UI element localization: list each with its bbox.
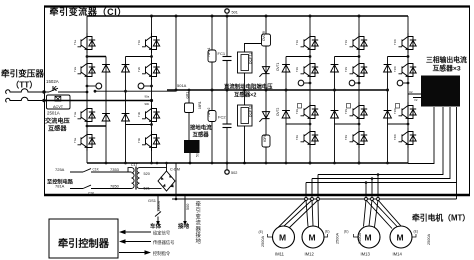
diode column DM1 upper: [285, 57, 287, 164]
svg-text:M: M: [365, 233, 372, 243]
svg-text:T1V: T1V: [344, 40, 348, 45]
svg-text:IM14: IM14: [393, 252, 403, 257]
diode DM1u: [282, 65, 290, 73]
svg-text:互感器: 互感器: [193, 131, 210, 139]
svg-text:T2a: T2a: [73, 66, 77, 72]
node: bundle terminals: [305, 198, 380, 201]
svg-text:T2W: T2W: [393, 66, 397, 72]
inverter AC terminal circle W: [397, 80, 403, 86]
svg-text:T1b: T1b: [137, 39, 141, 45]
wire: lower link DM1 to inverter leg1: [286, 123, 310, 125]
svg-text:GS1: GS1: [148, 198, 157, 203]
gate driver marks on inverter lower modules: [298, 104, 400, 109]
svg-text:T4a: T4a: [73, 137, 77, 143]
IGBT V1: [350, 33, 368, 53]
diode DM3u: [384, 65, 392, 73]
diode D1a: [102, 65, 110, 73]
svg-text:T4V: T4V: [344, 135, 348, 140]
svg-text:520: 520: [144, 172, 150, 176]
wire: inverter leg 3: [407, 16, 409, 163]
node: bottom bus junctions: [105, 162, 389, 165]
svg-text:76Re1: 76Re1: [207, 47, 211, 57]
wire: fan to motor IM13: [364, 200, 379, 227]
rectifier bridge C-DM (diamond): [158, 171, 175, 191]
svg-text:90b: 90b: [145, 102, 150, 106]
svg-text:2500A: 2500A: [336, 233, 340, 244]
diode DM1l: [282, 111, 290, 119]
diode DM2u: [331, 65, 339, 73]
wire: bundle feed from bottom bus: [175, 163, 177, 199]
IGBT T2b: [142, 60, 160, 80]
svg-text:互感器×3: 互感器×3: [433, 64, 461, 73]
IGBT T3a: [78, 105, 96, 125]
wire: top DC bus: [87, 15, 408, 17]
diode column DM3: [387, 57, 389, 164]
svg-text:FC1: FC1: [218, 51, 226, 56]
svg-text:2500A: 2500A: [261, 236, 265, 247]
ground brush E of IM12: [324, 234, 328, 237]
svg-text:DCPT2: DCPT2: [249, 106, 253, 117]
wire: link leg1 mid to diode column 1: [87, 56, 106, 58]
diode D2a: [102, 114, 110, 122]
svg-text:(E): (E): [259, 230, 264, 234]
svg-text:IM11: IM11: [275, 252, 285, 257]
svg-text:2500A: 2500A: [427, 234, 431, 245]
svg-text:781A: 781A: [55, 184, 65, 189]
resistor Re1 branch: [211, 16, 213, 90]
wire: fan to motor IM11: [278, 200, 319, 228]
svg-text:T3U: T3U: [295, 109, 299, 114]
wire: heavy transformer lower lead to right leg: [44, 100, 152, 102]
ground current transformer (filled box): [184, 140, 200, 153]
wire: fan to motor IM12: [306, 200, 319, 227]
three-phase output CT (filled box): [421, 76, 460, 107]
thyristor OVT2 + resistor branch: [265, 90, 267, 163]
svg-text:控制指令: 控制指令: [153, 250, 171, 257]
svg-text:T4W: T4W: [393, 134, 397, 140]
wire: K contactor line: [44, 88, 87, 92]
svg-text:90a: 90a: [145, 95, 150, 99]
diode DM3l: [384, 111, 392, 119]
signal arrow out of controller: [119, 252, 146, 254]
svg-text:(E): (E): [325, 230, 330, 234]
wire: bridge connections: [142, 168, 167, 189]
wire: link DM3 to inverter leg3: [388, 56, 409, 58]
svg-text:T3W: T3W: [393, 108, 397, 114]
test point 502: [226, 163, 228, 170]
motor IM13: [358, 226, 380, 248]
svg-text:牵引电机（MT）: 牵引电机（MT）: [412, 213, 470, 223]
wire: inverter leg 2: [358, 16, 360, 163]
svg-text:T1U: T1U: [295, 40, 299, 45]
AC voltage transformer ACVT box: [47, 95, 71, 109]
wire: 4QC diode column 2: [125, 57, 127, 164]
svg-text:（TT）: （TT）: [11, 80, 37, 90]
svg-text:OVT2: OVT2: [276, 107, 280, 116]
DC voltage transducer DCPT2: [238, 90, 253, 164]
svg-text:2500A: 2500A: [358, 233, 362, 244]
svg-text:T3V: T3V: [344, 109, 348, 114]
wire: DC link left vertical: [175, 16, 177, 90]
wire: lower link DM2 to inverter leg2: [335, 123, 360, 125]
inverter AC terminal circle V: [349, 80, 355, 86]
signal arrow into controller 2: [124, 241, 151, 243]
svg-text:501: 501: [232, 11, 238, 15]
svg-text:OVT1: OVT1: [276, 62, 280, 71]
svg-text:M: M: [309, 233, 316, 243]
precharge line 781A with contactor C2K: [70, 185, 132, 188]
svg-text:2501A: 2501A: [47, 111, 60, 116]
IGBT V2: [350, 60, 368, 80]
wire: bottom DC bus: [87, 162, 408, 164]
IGBT T1b: [142, 33, 160, 53]
wire: lower link DM3 to inverter leg3: [388, 123, 409, 125]
inverter AC terminal circle U: [298, 80, 304, 86]
ground brush E of IM14: [412, 234, 416, 237]
IGBT U4: [301, 128, 319, 148]
svg-text:FC2: FC2: [218, 115, 226, 120]
transformer TT secondary winding upper: [6, 89, 44, 94]
ground brush E of IM13: [354, 234, 359, 237]
node: transformer terminals on CI border: [42, 90, 45, 93]
svg-text:C-DM: C-DM: [170, 168, 180, 172]
wire: phase output routing from CT box to motors: [408, 107, 434, 164]
ground brush E of IM11: [268, 234, 273, 237]
wire: stubs into output CT: [408, 94, 421, 98]
svg-text:60Rf: 60Rf: [263, 135, 267, 142]
svg-text:C1K: C1K: [93, 168, 100, 172]
svg-text:C2K: C2K: [88, 192, 95, 196]
svg-text:T4U: T4U: [295, 135, 299, 140]
traction controller box: [49, 219, 118, 258]
wire: bridge top corner to bus: [166, 163, 168, 171]
svg-text:1502A: 1502A: [46, 79, 59, 84]
svg-text:接地电流: 接地电流: [190, 124, 212, 132]
wire: inverter leg 1: [309, 16, 311, 163]
motor IM14: [390, 226, 412, 248]
IGBT W4: [399, 128, 417, 148]
svg-text:互感器: 互感器: [48, 125, 67, 133]
IGBT T2a: [78, 60, 96, 80]
terminal circle Ob on 4QC leg2 midpoint: [138, 83, 144, 89]
diode D1b: [122, 65, 130, 73]
svg-text:502: 502: [231, 171, 237, 175]
IGBT T3b: [142, 105, 160, 125]
svg-text:C1T: C1T: [131, 163, 139, 167]
svg-text:T2U: T2U: [295, 67, 299, 72]
capacitor FC1: [226, 16, 228, 57]
IGBT U3: [301, 102, 319, 122]
svg-text:牵引控制器: 牵引控制器: [58, 237, 110, 250]
IGBT W3: [399, 102, 417, 122]
svg-text:1300S: 1300S: [157, 201, 161, 212]
DC voltage transducer DCPT1: [238, 44, 267, 92]
svg-text:T3a: T3a: [73, 111, 77, 117]
wire: DC middle bus: [167, 89, 388, 91]
svg-text:M: M: [279, 233, 286, 243]
svg-text:给定信号: 给定信号: [153, 230, 170, 237]
svg-text:三相输出电流: 三相输出电流: [426, 55, 467, 64]
svg-text:ACVT: ACVT: [53, 105, 64, 109]
svg-text:传感器信号: 传感器信号: [153, 239, 174, 246]
svg-text:(E): (E): [414, 230, 419, 234]
svg-text:7353: 7353: [110, 167, 120, 172]
svg-text:直流制动电阻端电压: 直流制动电阻端电压: [224, 83, 273, 91]
wire: motor supply bundle line: [172, 198, 457, 200]
svg-text:T2b: T2b: [137, 66, 141, 72]
svg-text:16R1: 16R1: [198, 101, 202, 109]
wire: 4QC diode column 1: [105, 57, 107, 164]
svg-text:牵引变流器接地: 牵引变流器接地: [196, 200, 202, 245]
svg-text:车体: 车体: [150, 222, 162, 230]
svg-text:T3b: T3b: [137, 111, 141, 117]
node: middle bus junctions: [211, 89, 390, 92]
IGBT T1a: [78, 33, 96, 53]
diode DM2l: [331, 111, 339, 119]
auxiliary transformer windings 520/521: [128, 167, 142, 190]
test point 501: [225, 9, 229, 13]
svg-text:502M: 502M: [196, 148, 200, 157]
wire: 4QC leg 2: [151, 16, 153, 163]
svg-text:76Re2: 76Re2: [207, 107, 211, 117]
ground resistor GR branch: [188, 90, 190, 103]
svg-text:M: M: [397, 233, 404, 243]
IGBT T4b: [142, 131, 160, 151]
svg-text:725A: 725A: [55, 167, 65, 172]
svg-text:T2V: T2V: [344, 67, 348, 72]
svg-text:T1a: T1a: [73, 39, 77, 45]
wire: 4QC leg 1: [86, 16, 88, 163]
svg-text:接地: 接地: [178, 222, 190, 230]
motor IM12: [302, 226, 324, 248]
IGBT U1: [301, 33, 319, 53]
node: mid connection junctions: [94, 90, 97, 93]
diode D2b: [122, 114, 130, 122]
svg-text:(E): (E): [344, 230, 349, 234]
precharge line 725A with contactor C1K: [70, 169, 132, 172]
svg-text:OVCRf: OVCRf: [262, 31, 266, 41]
wire: 4QC mid connection bus: [95, 90, 176, 92]
grounding drop 500: [184, 196, 186, 222]
node: branch junctions on phase wires: [365, 173, 380, 184]
node: top bus junctions: [150, 15, 361, 18]
overvoltage branch OVCRf: [265, 16, 267, 90]
svg-text:T4b: T4b: [137, 137, 141, 143]
wire: fan to motor IM14: [366, 200, 403, 229]
converter enclosure CI box: [44, 7, 470, 196]
svg-text:牵引变压器: 牵引变压器: [1, 68, 44, 79]
grounding switch GS1 drop: [155, 196, 161, 222]
svg-text:7850: 7850: [110, 184, 120, 189]
svg-text:501A: 501A: [177, 83, 187, 88]
capacitor FC2: [226, 90, 228, 124]
svg-text:互感器×2: 互感器×2: [234, 91, 256, 99]
terminal circle Oa on 4QC leg1 midpoint: [87, 85, 96, 87]
svg-text:IM13: IM13: [361, 252, 371, 257]
svg-text:V2: V2: [414, 98, 418, 102]
svg-text:交流电压: 交流电压: [45, 117, 71, 125]
wire: lower link diode column 2 to leg2: [126, 124, 152, 126]
IGBT V4: [350, 128, 368, 148]
wire: link DM2 to inverter leg2: [335, 56, 360, 58]
svg-text:U2: U2: [409, 90, 413, 94]
svg-text:DCPT1: DCPT1: [249, 53, 253, 64]
svg-text:500: 500: [186, 204, 190, 210]
IGBT W1: [399, 33, 417, 53]
svg-text:IM12: IM12: [305, 252, 315, 257]
wire: link diode column 2 to leg2 mid: [126, 56, 152, 58]
diode column DM2: [334, 57, 336, 164]
IGBT W2: [399, 60, 417, 80]
thyristor OVT1: [259, 67, 269, 77]
resistor Re2 branch lower: [211, 90, 213, 163]
wire: lower link leg1 to diode column 1: [87, 125, 106, 127]
svg-text:T1W: T1W: [393, 39, 397, 45]
transformer TT secondary winding lower: [6, 97, 44, 102]
wire: link DM1 to inverter leg1: [286, 56, 310, 58]
motor IM11: [273, 226, 295, 248]
IGBT U2: [301, 60, 319, 80]
wire: phase drops through case bottom: [306, 175, 378, 200]
IGBT V3: [350, 102, 368, 122]
IGBT T4a: [78, 131, 96, 151]
signal arrow into controller 1: [124, 231, 151, 233]
